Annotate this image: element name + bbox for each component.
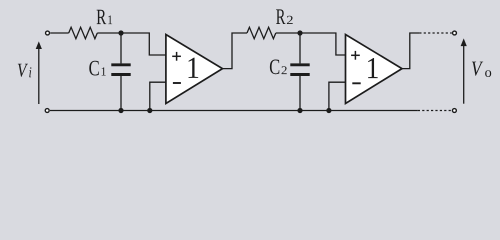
junction dot C2 ground bbox=[297, 108, 302, 113]
op-amp U2 plus sign bbox=[351, 51, 360, 60]
op-amp U2 minus sign bbox=[352, 82, 360, 84]
dashed wire to output terminal bottom bbox=[418, 110, 452, 112]
node B junction dot bbox=[297, 30, 302, 35]
label R1 letter R bbox=[97, 10, 107, 24]
op-amp U2 body bbox=[346, 35, 403, 104]
op-amp U2 gain label 1 bbox=[368, 58, 378, 78]
Vi polarity arrow bbox=[36, 41, 42, 104]
wire node B to op-amp U2 plus input bbox=[300, 33, 346, 55]
label Vo subscript o bbox=[485, 70, 491, 77]
wire U2 minus input to bottom rail bbox=[329, 82, 346, 110]
Vo polarity arrow bbox=[461, 38, 467, 103]
label R1 subscript 1 bbox=[108, 16, 112, 25]
label Vi subscript i bbox=[29, 67, 31, 77]
wire R1 to node A bbox=[97, 32, 121, 34]
label Vi letter V bbox=[18, 64, 28, 77]
wire node A down to capacitor C1 bbox=[120, 33, 122, 63]
label R2 subscript 2 bbox=[287, 16, 293, 24]
junction dot U2 minus ground bbox=[326, 108, 331, 113]
capacitor C2 top plate bbox=[290, 63, 309, 66]
label C2 subscript 2 bbox=[282, 66, 287, 74]
op-amp U1 body bbox=[166, 35, 223, 104]
capacitor C1 bottom plate bbox=[111, 73, 130, 76]
dashed wire to output terminal top bbox=[419, 32, 452, 34]
label Vo letter V bbox=[472, 62, 483, 76]
output terminal bottom bbox=[452, 109, 456, 113]
label C1 subscript 1 bbox=[102, 67, 106, 75]
capacitor C2 bottom plate bbox=[290, 73, 309, 76]
wire node A to op-amp U1 plus input bbox=[121, 33, 166, 55]
label R2 letter R bbox=[276, 9, 285, 24]
input terminal bottom bbox=[45, 109, 49, 113]
capacitor C1 top plate bbox=[111, 63, 130, 66]
wire node B down to capacitor C2 bbox=[299, 33, 301, 63]
label C1 letter C bbox=[89, 61, 99, 76]
wire C2 to bottom rail bbox=[299, 76, 301, 111]
op-amp U1 gain label 1 bbox=[189, 58, 199, 78]
node A junction dot bbox=[118, 30, 123, 35]
wire C1 to bottom rail bbox=[120, 76, 122, 111]
wire R2 to node B bbox=[276, 32, 300, 34]
wire U2 output up to top level bbox=[402, 33, 419, 69]
wire U1 output to R2 bbox=[223, 33, 248, 69]
label C2 letter C bbox=[270, 60, 279, 75]
resistor R1 bbox=[69, 27, 98, 38]
output terminal top bbox=[453, 31, 457, 35]
bottom rail wire bbox=[50, 110, 418, 112]
op-amp U1 minus sign bbox=[173, 82, 181, 84]
wire U1 minus input to bottom rail bbox=[150, 82, 166, 110]
input terminal top bbox=[46, 31, 50, 35]
junction dot U1 minus ground bbox=[147, 108, 152, 113]
op-amp U1 plus sign bbox=[172, 52, 181, 61]
wire input terminal to R1 bbox=[50, 32, 68, 34]
resistor R2 bbox=[247, 27, 276, 38]
junction dot C1 ground bbox=[118, 108, 123, 113]
